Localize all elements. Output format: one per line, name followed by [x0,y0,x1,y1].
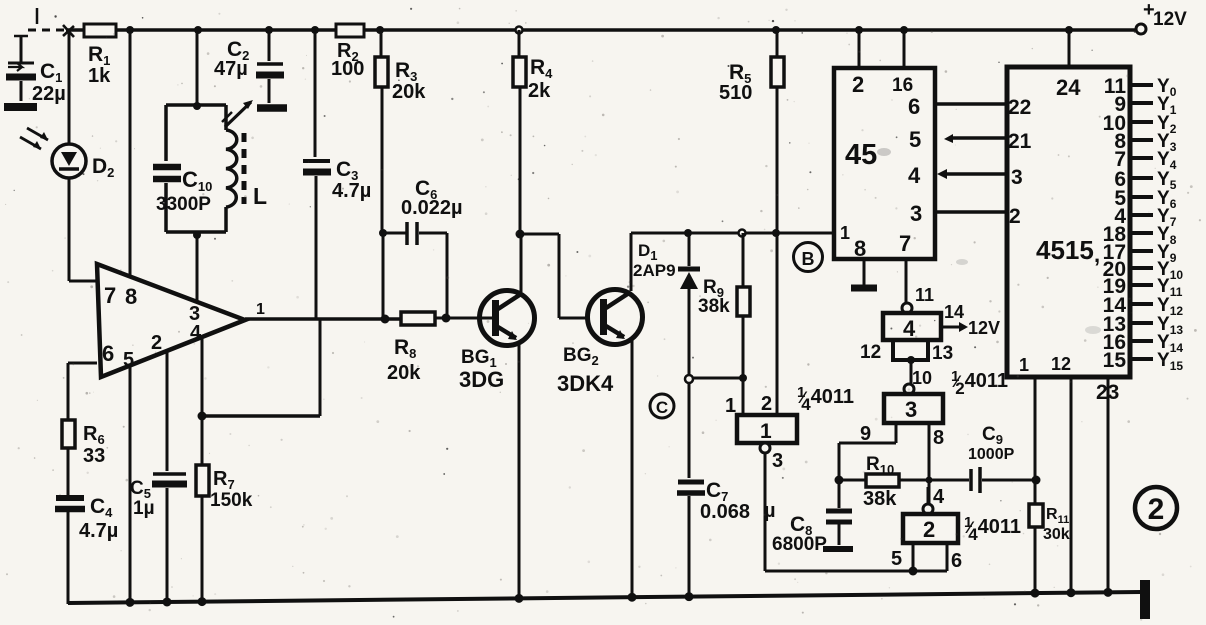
svg-text:2: 2 [1009,205,1021,228]
svg-text:3: 3 [910,201,922,226]
svg-text:1k: 1k [88,65,111,87]
svg-text:L: L [253,183,267,209]
svg-text:8: 8 [933,427,944,449]
svg-text:6: 6 [951,550,962,572]
svg-text:,: , [1094,242,1100,267]
svg-text:6800P: 6800P [772,534,827,555]
svg-text:C: C [656,398,668,417]
svg-text:150k: 150k [210,490,253,511]
svg-text:33: 33 [83,445,105,467]
svg-text:B: B [802,249,815,269]
svg-text:3DK4: 3DK4 [557,371,614,396]
svg-text:20k: 20k [387,362,421,384]
svg-text:8: 8 [125,284,137,309]
svg-text:3: 3 [905,397,917,422]
svg-text:12V: 12V [968,318,1000,338]
svg-text:10: 10 [912,368,932,388]
svg-text:4: 4 [933,486,945,508]
svg-text:38k: 38k [863,488,897,510]
svg-text:4: 4 [908,163,921,188]
svg-text:1: 1 [760,420,772,443]
svg-text:3: 3 [772,450,783,472]
svg-text:6: 6 [102,341,114,366]
svg-text:24: 24 [1056,75,1081,100]
svg-text:3300P: 3300P [156,194,211,215]
svg-text:12: 12 [1051,354,1071,374]
svg-text:14: 14 [944,302,964,322]
svg-text:4.7µ: 4.7µ [79,520,118,542]
svg-text:16: 16 [892,75,913,96]
svg-text:2: 2 [852,72,864,97]
svg-text:1µ: 1µ [133,498,155,519]
svg-text:3DG: 3DG [459,367,504,392]
svg-text:11: 11 [915,285,934,305]
svg-text:8: 8 [854,236,866,261]
svg-text:47µ: 47µ [214,58,248,80]
svg-text:4.7µ: 4.7µ [332,180,371,202]
svg-text:4: 4 [903,316,916,341]
svg-text:100: 100 [331,58,364,80]
svg-text:13: 13 [932,343,953,364]
svg-text:22µ: 22µ [32,83,66,105]
svg-text:45: 45 [845,139,877,171]
svg-text:0.068: 0.068 [700,501,750,523]
svg-text:21: 21 [1008,130,1032,153]
svg-text:20k: 20k [392,81,426,103]
svg-text:9: 9 [860,423,871,445]
svg-text:7: 7 [899,231,911,256]
svg-text:0.022µ: 0.022µ [401,197,463,219]
svg-text:22: 22 [1008,96,1031,119]
svg-text:5: 5 [909,127,921,152]
svg-text:2AP9: 2AP9 [633,261,676,280]
svg-text:6: 6 [908,94,920,119]
svg-text:1: 1 [256,301,265,318]
svg-text:2: 2 [923,517,935,542]
svg-text:2k: 2k [528,80,551,102]
svg-text:15: 15 [1103,349,1127,372]
svg-text:510: 510 [719,82,752,104]
svg-text:3: 3 [1011,166,1023,189]
svg-text:1000P: 1000P [968,446,1015,463]
svg-text:5: 5 [891,548,902,570]
svg-text:1: 1 [840,223,850,243]
svg-text:38k: 38k [698,296,730,317]
svg-text:2: 2 [1148,493,1165,526]
svg-text:12V: 12V [1153,9,1187,30]
svg-text:4: 4 [190,322,202,344]
svg-text:2: 2 [761,393,772,415]
svg-text:2: 2 [151,332,162,354]
svg-text:7: 7 [104,283,116,308]
svg-text:12: 12 [860,342,881,363]
svg-text:30k: 30k [1043,526,1070,543]
svg-text:1: 1 [1019,355,1029,375]
svg-text:1: 1 [725,395,736,417]
svg-text:4515: 4515 [1036,235,1094,265]
